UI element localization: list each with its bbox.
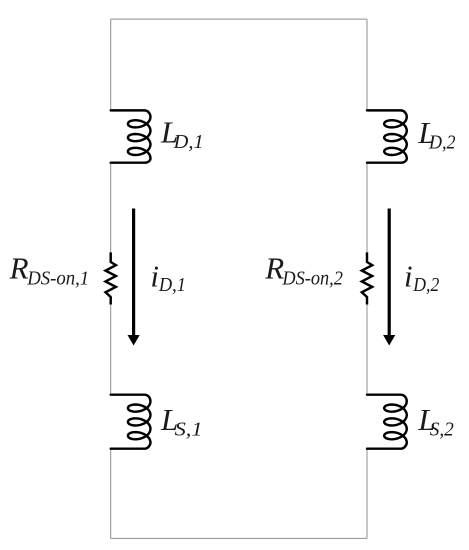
- wire right mid1: [366, 163, 368, 262]
- svg-text:D,2: D,2: [428, 131, 455, 153]
- svg-text:i: i: [150, 258, 159, 293]
- wire right mid2: [366, 296, 368, 395]
- wire left lower: [110, 449, 112, 539]
- wire left upper: [110, 19, 112, 110]
- svg-text:S,2: S,2: [430, 418, 454, 440]
- svg-text:R: R: [9, 250, 29, 285]
- current arrow i_D,2: [383, 209, 395, 346]
- label i_D,1: [150, 258, 186, 296]
- wire top: [111, 18, 367, 20]
- current arrow i_D,1: [128, 209, 140, 346]
- inductor L_D,2: [367, 110, 407, 162]
- svg-text:D,1: D,1: [173, 131, 204, 153]
- wire bottom: [111, 537, 367, 539]
- label R_DS-on,2: [264, 250, 343, 289]
- label L_D,2: [417, 115, 455, 154]
- wire right lower: [366, 449, 368, 539]
- svg-text:D,2: D,2: [412, 274, 439, 296]
- svg-text:S,1: S,1: [175, 418, 203, 440]
- label L_D,1: [160, 115, 204, 154]
- svg-text:i: i: [404, 258, 413, 293]
- label L_S,2: [417, 402, 453, 440]
- resistor R_DS-on,2: [362, 252, 372, 304]
- inductor L_D,1: [111, 110, 151, 162]
- label R_DS-on,1: [9, 250, 90, 289]
- svg-text:D,1: D,1: [158, 274, 186, 296]
- wire left mid2: [110, 296, 112, 395]
- svg-text:R: R: [264, 250, 284, 285]
- wire right upper: [366, 19, 368, 110]
- svg-text:DS-on,2: DS-on,2: [281, 268, 342, 290]
- inductor L_S,2: [367, 395, 407, 449]
- wire left mid1: [110, 163, 112, 262]
- label i_D,2: [404, 258, 439, 296]
- resistor R_DS-on,1: [106, 252, 116, 304]
- svg-text:DS-on,1: DS-on,1: [26, 268, 89, 290]
- label L_S,1: [160, 402, 203, 440]
- inductor L_S,1: [111, 395, 151, 449]
